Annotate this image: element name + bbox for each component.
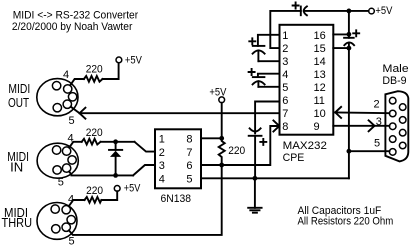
junction +5V rail node: [347, 9, 352, 14]
svg-text:5: 5: [69, 235, 75, 247]
junction node B (diode bottom): [113, 173, 118, 178]
svg-text:6N138: 6N138: [161, 193, 192, 205]
svg-text:2: 2: [282, 43, 288, 55]
svg-text:220: 220: [86, 64, 103, 76]
U1 pin numbers left: [159, 134, 165, 186]
wire MIDI THRU pin5 to opto output: [69, 165, 222, 235]
U1 pin numbers right: [186, 134, 192, 186]
wire node A to 6N138 pin2: [135, 142, 156, 152]
svg-text:THRU: THRU: [2, 216, 33, 230]
svg-text:6: 6: [186, 160, 192, 172]
transistor U2 MAX232 box: [280, 25, 334, 135]
wire MIDI OUT pin4 to R1: [70, 79, 84, 85]
op-amp U1 6N138 opto box: [155, 129, 201, 188]
plus sign C2: [249, 69, 255, 75]
junction pin16 node: [347, 32, 352, 37]
plus sign C3: [293, 3, 299, 9]
capacitor C5 (V- to GND): [249, 128, 262, 178]
svg-text:2/20/2000 by Noah Vawter: 2/20/2000 by Noah Vawter: [12, 21, 133, 33]
svg-text:All Resistors 220 Ohm: All Resistors 220 Ohm: [298, 215, 394, 227]
svg-text:OUT: OUT: [8, 96, 29, 110]
wire MAX232 pin3 stub: [258, 60, 279, 62]
wire ground rail down right side: [348, 48, 350, 178]
+5V terminal (MIDI OUT): [116, 57, 122, 63]
wire 6N138 pin5 to ground rail: [201, 177, 349, 179]
wire MAX232 pin2 stub up to C3 rail: [270, 11, 301, 48]
svg-text:+5V: +5V: [375, 5, 393, 17]
svg-text:IN: IN: [10, 160, 23, 174]
wire MIDI THRU pin4 to R3: [69, 200, 85, 206]
svg-text:5: 5: [374, 138, 380, 150]
svg-text:15: 15: [314, 43, 326, 55]
wire node B to 6N138 pin3: [133, 165, 155, 175]
+5V terminal (MIDI THRU): [114, 186, 120, 192]
label MIDI IN: [7, 150, 29, 174]
svg-text:4: 4: [159, 174, 165, 186]
svg-text:+5V: +5V: [124, 183, 141, 195]
svg-text:5: 5: [282, 82, 288, 94]
svg-text:CPE: CPE: [283, 152, 305, 164]
wire MIDI IN pin5 to node B: [69, 172, 133, 176]
svg-text:MIDI <-> RS-232 Converter: MIDI <-> RS-232 Converter: [13, 9, 139, 21]
svg-text:DB-9: DB-9: [382, 75, 406, 87]
svg-text:13: 13: [314, 69, 326, 81]
svg-text:8: 8: [282, 121, 288, 133]
wire MIDI OUT pin5 stub: [71, 107, 80, 114]
svg-text:1: 1: [159, 134, 165, 146]
label MAX232 CPE: [283, 140, 327, 164]
connector J2 MIDI IN (DIN-5): [37, 143, 78, 178]
svg-text:MAX232: MAX232: [283, 140, 327, 152]
svg-text:2: 2: [374, 99, 380, 111]
capacitor C1 (pins 1-3): [253, 46, 265, 61]
svg-text:220: 220: [86, 127, 103, 139]
wire MAX232 pin5 stub: [258, 86, 279, 88]
svg-text:220: 220: [228, 145, 245, 157]
J4 pins (9 circles): [389, 97, 406, 155]
label MIDI THRU: [2, 206, 33, 230]
+5V terminal (6N138 supply): [219, 97, 225, 103]
wire 6N138 pin8 stub: [201, 137, 222, 139]
wire MIDI IN pin4 to R2: [69, 142, 82, 148]
wire opto output to MAX232 pin8: [222, 126, 280, 165]
wire MAX232 pin7 to MIDI OUT pin5 (RS232 TX line): [80, 112, 280, 114]
wire +5V down to 6N138 pin8 node: [221, 103, 223, 139]
arrow into MAX232 pin10: [335, 107, 341, 118]
arrow into MIDI OUT pin5: [80, 108, 86, 119]
junction pin6 node: [219, 163, 224, 168]
wire MAX232 pin16 stub: [333, 33, 349, 35]
svg-text:7: 7: [282, 108, 288, 120]
wire MAX232 pin9 to DB9 pin3: [333, 125, 389, 127]
U2 pin numbers left: [282, 30, 288, 133]
junction pin15 node: [347, 46, 352, 51]
svg-text:12: 12: [314, 82, 326, 94]
svg-text:4: 4: [282, 69, 288, 81]
svg-text:16: 16: [314, 30, 326, 42]
svg-text:7: 7: [186, 147, 192, 159]
connector J3 MIDI THRU (DIN-5): [37, 203, 77, 240]
junction node A (anode wire top): [113, 139, 118, 144]
wire DB9 pin2 to MAX232 pin10: [335, 111, 389, 114]
svg-text:3: 3: [159, 160, 165, 172]
svg-text:5: 5: [186, 174, 192, 186]
wire R1 to +5V terminal: [103, 63, 119, 79]
plus sign C4: [353, 30, 359, 36]
label MIDI OUT: [8, 82, 30, 110]
junction ground node: [253, 176, 258, 181]
svg-text:6: 6: [282, 95, 288, 107]
wire R2 to node A: [101, 141, 135, 143]
svg-text:8: 8: [186, 134, 192, 146]
connector J1 MIDI OUT (DIN-5): [37, 79, 78, 116]
wire 6N138 pin6 stub: [201, 164, 222, 166]
diode D1 (across opto LED): [109, 142, 122, 176]
svg-text:5: 5: [58, 177, 64, 189]
wire MAX232 pin15 stub: [333, 47, 349, 49]
svg-text:14: 14: [314, 56, 326, 68]
wire DB9 pin5 to ground rail: [349, 150, 390, 152]
ground: [248, 178, 261, 212]
svg-text:10: 10: [314, 108, 326, 120]
junction pin8 node: [219, 136, 224, 141]
svg-text:Male: Male: [382, 63, 408, 75]
wire +5V rail down to pin16: [348, 11, 350, 34]
wire MAX232 pin4 stub: [258, 74, 280, 77]
svg-text:5: 5: [69, 115, 75, 127]
plus sign C5: [260, 139, 266, 145]
resistor R2 220: [82, 139, 101, 145]
capacitor C4 (VCC bypass): [344, 34, 354, 48]
svg-text:MIDI: MIDI: [8, 82, 30, 96]
svg-text:11: 11: [314, 95, 325, 107]
U2 pin numbers right: [314, 30, 326, 133]
capacitor C2 (pins 4-5): [253, 77, 265, 87]
wire MAX232 pin1 stub: [258, 35, 280, 46]
arrow into DB9 pin3: [369, 120, 375, 131]
arrow into MAX232 pin8: [273, 121, 279, 132]
capacitor C3 (V+ to VCC, horizontal): [301, 6, 349, 15]
svg-text:+5V: +5V: [125, 55, 143, 67]
wire rail to +5V terminal: [349, 10, 369, 12]
label Male DB-9: [382, 63, 408, 87]
svg-text:1: 1: [282, 30, 288, 42]
resistor R3 220: [85, 197, 102, 203]
svg-text:3: 3: [282, 56, 288, 68]
plus sign C1: [249, 38, 255, 44]
svg-text:220: 220: [86, 185, 103, 197]
resistor R1 220: [84, 76, 103, 82]
+5V terminal (top right): [369, 8, 375, 14]
connector J4 DB-9 shell: [385, 91, 408, 161]
junction DB9 pin5 / ground rail: [347, 149, 352, 154]
svg-text:4: 4: [63, 69, 69, 81]
svg-text:+5V: +5V: [209, 86, 227, 98]
svg-text:9: 9: [314, 121, 320, 133]
svg-text:2: 2: [159, 147, 165, 159]
resistor R4 220 pullup (vertical): [219, 138, 225, 165]
wire R3 to +5V terminal: [101, 191, 117, 200]
wire MAX232 pin6 stub down to C5: [255, 102, 279, 134]
